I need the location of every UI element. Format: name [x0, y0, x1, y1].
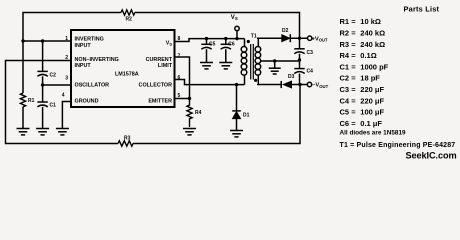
svg-text:VS: VS	[166, 41, 173, 47]
wire non-inverting input (pin 2)	[6, 61, 119, 144]
ground (D1)	[230, 131, 243, 137]
wire inverting input (pin 1)	[23, 40, 71, 42]
wire current limit (pin 7) to emitter	[175, 57, 190, 99]
node -Vout junction	[298, 83, 301, 86]
svg-text:C6: C6	[228, 42, 235, 48]
transformer T1 secondary	[255, 38, 261, 84]
svg-text:INVERTING: INVERTING	[75, 37, 104, 43]
svg-text:OSCILLATOR: OSCILLATOR	[75, 83, 110, 89]
wire D2 to +Vout	[290, 37, 307, 39]
wire R1 to ground	[22, 107, 24, 128]
node center tap ground junction	[273, 59, 276, 62]
capacitor C6	[221, 39, 235, 62]
wire R1 branch	[22, 41, 24, 93]
svg-text:SeekIC.com: SeekIC.com	[406, 150, 457, 160]
svg-text:C3=220 μF: C3=220 μF	[340, 85, 385, 94]
wire emitter (pin 5)	[175, 98, 190, 100]
svg-text:C5=100 μF: C5=100 μF	[340, 108, 385, 117]
resistor R2	[121, 10, 135, 23]
wire top feedback rail left	[23, 13, 121, 42]
svg-text:INPUT: INPUT	[75, 43, 92, 49]
node oscillator junction	[41, 83, 44, 86]
wire secondary bottom to D3	[257, 84, 281, 86]
wire C2 to oscillator node	[42, 76, 44, 85]
svg-text:1: 1	[65, 36, 68, 42]
node emitter junction	[188, 97, 191, 100]
svg-text:C1: C1	[50, 103, 57, 109]
svg-text:LIMIT: LIMIT	[158, 63, 173, 69]
capacitor C1	[37, 102, 56, 109]
svg-text:COLLECTOR: COLLECTOR	[139, 83, 173, 89]
node Vs supply terminal	[231, 15, 239, 39]
svg-text:R4: R4	[195, 110, 202, 116]
svg-text:T1: T1	[251, 34, 257, 40]
wire C1 to ground	[42, 107, 44, 128]
svg-text:C6=0.1 μF: C6=0.1 μF	[340, 119, 383, 128]
diode D3	[281, 74, 294, 88]
wire oscillator (pin 3)	[43, 84, 71, 86]
svg-text:INPUT: INPUT	[75, 63, 92, 69]
svg-text:EMITTER: EMITTER	[148, 99, 172, 105]
capacitor C4	[294, 60, 313, 85]
wire center tap ground stub	[274, 61, 276, 68]
diode D2	[282, 28, 291, 42]
svg-text:R1=10 kΩ: R1=10 kΩ	[340, 17, 381, 26]
diode D1	[232, 85, 249, 130]
svg-text:R3=240 kΩ: R3=240 kΩ	[340, 40, 386, 49]
svg-text:R3: R3	[124, 135, 131, 141]
wire secondary center tap	[260, 60, 300, 62]
ground (C5)	[200, 63, 213, 69]
node primary phase dot	[247, 40, 250, 43]
ground (C6)	[219, 63, 232, 69]
node C3/C4 junction	[298, 58, 301, 61]
node +Vout terminal	[308, 36, 329, 43]
svg-text:Parts List: Parts List	[404, 5, 440, 14]
resistor R1	[20, 93, 34, 107]
transformer T1 core	[251, 44, 254, 80]
node C5 junction	[205, 37, 208, 40]
svg-text:GROUND: GROUND	[75, 99, 99, 105]
node secondary phase dot	[254, 79, 257, 82]
resistor R3	[118, 135, 133, 146]
node +Vout junction	[298, 37, 301, 40]
svg-text:VS: VS	[231, 15, 238, 21]
svg-text:C2=18 pF: C2=18 pF	[340, 74, 381, 83]
svg-text:C4=220 μF: C4=220 μF	[340, 96, 385, 105]
svg-text:D2: D2	[282, 28, 289, 34]
resistor R4	[187, 99, 202, 128]
parts list	[340, 5, 456, 149]
svg-text:C2: C2	[50, 73, 57, 79]
capacitor C2	[37, 71, 56, 78]
ground (center tap)	[269, 68, 281, 74]
svg-text:3: 3	[65, 76, 68, 82]
ground (C1)	[36, 129, 49, 135]
wire bottom feedback to -Vout	[133, 85, 300, 144]
node C6 junction	[224, 37, 227, 40]
transformer T1 primary	[241, 34, 257, 85]
ground (R4)	[183, 129, 196, 135]
wire D3 to -Vout	[292, 84, 308, 86]
node D1 junction	[235, 83, 238, 86]
wire top feedback rail right	[135, 13, 300, 37]
svg-text:R1: R1	[28, 98, 35, 104]
svg-text:+VOUT: +VOUT	[312, 36, 329, 42]
node -Vout terminal	[307, 82, 328, 89]
capacitor C3	[294, 38, 313, 60]
op-amp U1 LM1578A	[71, 30, 175, 107]
svg-text:R2=240 kΩ: R2=240 kΩ	[340, 29, 386, 38]
svg-text:C5: C5	[209, 42, 216, 48]
svg-text:2: 2	[65, 55, 68, 61]
svg-text:LM1578A: LM1578A	[115, 72, 139, 78]
capacitor C5	[201, 39, 215, 62]
svg-text:C4: C4	[307, 69, 314, 75]
svg-text:D3: D3	[288, 74, 295, 80]
wire ground pin (pin 4)	[62, 102, 70, 129]
svg-text:–VOUT: –VOUT	[312, 83, 328, 89]
ground (pin 4)	[56, 129, 69, 135]
svg-text:C3: C3	[307, 50, 314, 56]
wire Vs rail (pin 8)	[175, 39, 245, 42]
svg-text:C1=1000 pF: C1=1000 pF	[340, 62, 389, 71]
ground (R1)	[17, 129, 30, 135]
node C2 top junction	[41, 39, 44, 42]
svg-text:R4=0.1Ω: R4=0.1Ω	[340, 51, 377, 60]
svg-text:All diodes are 1N5819: All diodes are 1N5819	[340, 129, 407, 136]
svg-text:D1: D1	[243, 113, 250, 119]
wire secondary top to D2	[257, 37, 282, 39]
wire C2 branch	[42, 41, 44, 71]
svg-text:R2: R2	[126, 17, 133, 23]
wire collector (pin 6)	[175, 80, 245, 85]
svg-text:T1 = Pulse Engineering PE-6428: T1 = Pulse Engineering PE-64287	[340, 142, 456, 149]
node R1/R2 junction	[21, 39, 24, 42]
svg-text:4: 4	[62, 93, 65, 99]
wire C1 branch	[42, 85, 44, 102]
node Vs terminal junction	[235, 37, 238, 40]
